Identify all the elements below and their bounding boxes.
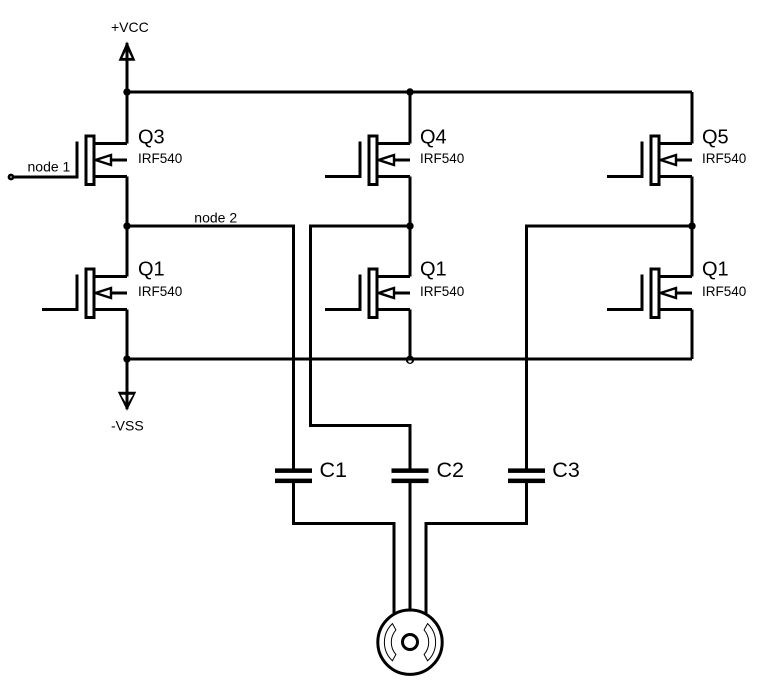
svg-text:Q1: Q1: [702, 259, 729, 281]
svg-text:Q1: Q1: [420, 259, 447, 281]
svg-text:node 2: node 2: [194, 210, 237, 226]
svg-text:Q5: Q5: [702, 127, 729, 149]
svg-text:IRF540: IRF540: [420, 151, 464, 166]
svg-text:Q1: Q1: [138, 259, 165, 281]
svg-text:IRF540: IRF540: [702, 151, 746, 166]
svg-text:Q3: Q3: [138, 127, 165, 149]
svg-text:Q4: Q4: [420, 127, 447, 149]
svg-text:C1: C1: [320, 458, 347, 482]
svg-text:C3: C3: [552, 458, 580, 482]
svg-text:IRF540: IRF540: [702, 284, 746, 299]
svg-text:C2: C2: [437, 458, 464, 482]
svg-text:-VSS: -VSS: [111, 418, 144, 434]
svg-text:node 1: node 1: [28, 159, 71, 175]
svg-text:IRF540: IRF540: [138, 284, 182, 299]
svg-text:IRF540: IRF540: [420, 284, 464, 299]
svg-text:IRF540: IRF540: [138, 151, 182, 166]
svg-text:+VCC: +VCC: [111, 19, 149, 35]
